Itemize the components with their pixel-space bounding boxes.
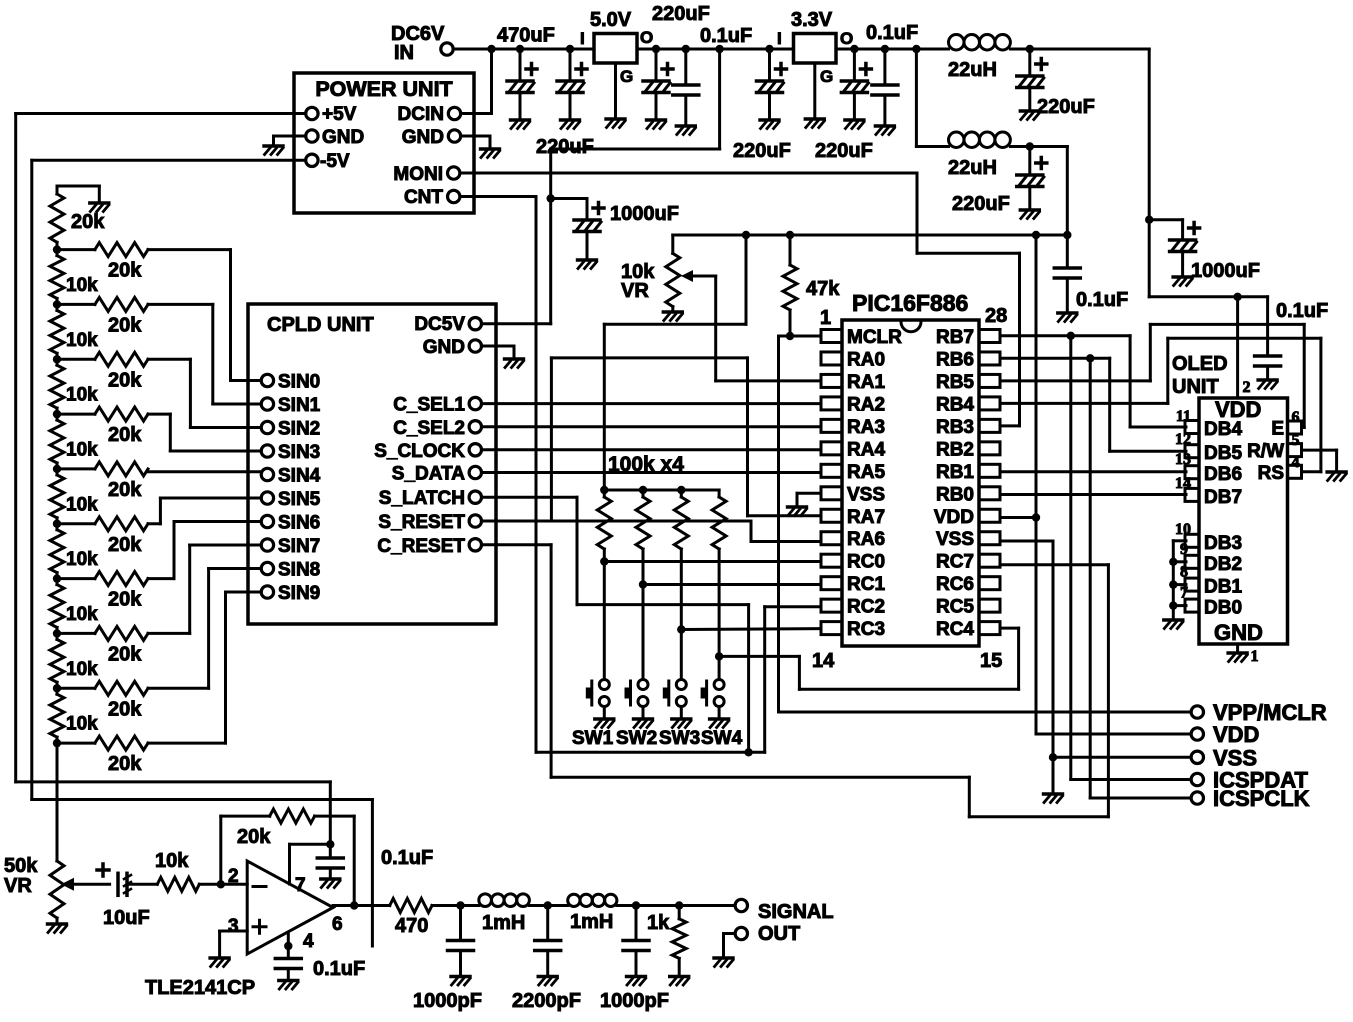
- label 20k (SIN2): [108, 369, 142, 391]
- wire 10uF to 10k: [127, 883, 157, 886]
- junction pin7 node: [326, 840, 334, 848]
- wire SIN8 route: [148, 569, 261, 689]
- wire tap4 to resistor: [57, 467, 95, 470]
- svg-text:10k: 10k: [66, 330, 98, 351]
- terminal SIN9: [261, 586, 273, 598]
- capacitor 0.1uF (pin7): [317, 858, 343, 868]
- wire ladder seg1b: [56, 298, 59, 304]
- ground (SIGNAL OUT): [714, 958, 733, 967]
- resistor 20k (SIN5): [95, 517, 148, 531]
- wire pin7: [290, 844, 331, 884]
- svg-text:C_SEL2: C_SEL2: [393, 418, 465, 439]
- terminal S_RESET: [469, 515, 481, 527]
- pin label VDD (OLED): [1215, 397, 1261, 422]
- wire node2 cap gnd: [546, 951, 549, 976]
- terminal DC6V IN: [441, 43, 453, 55]
- resistor 20k (ladder top): [50, 194, 64, 242]
- terminal SIGNAL OUT gnd: [735, 927, 747, 939]
- wire SW1 column: [603, 549, 606, 680]
- pin SIN2: [278, 419, 320, 440]
- junction inverting input: [217, 880, 225, 888]
- wire GND right to ground: [461, 136, 490, 148]
- potentiometer 50k VR: [50, 861, 64, 918]
- wire 100k 2 top lead: [642, 490, 645, 497]
- terminal -5V: [306, 154, 318, 166]
- wire 22uH lower out: [1010, 147, 1067, 236]
- label ICSP VSS: [1213, 745, 1257, 770]
- ground (220uF 3.3V output): [845, 120, 864, 129]
- wire 0.1uF PIC bypass lead: [1066, 235, 1069, 268]
- pin C_SEL1: [393, 395, 465, 416]
- svg-text:I: I: [777, 29, 782, 48]
- pin number 4 opamp: [303, 931, 314, 952]
- wire SIN9 route: [148, 592, 261, 743]
- resistor 10k (ladder 9): [50, 694, 64, 737]
- capacitor 1000pF (2): [623, 941, 649, 951]
- pin O (3.3V reg): [840, 29, 853, 48]
- ground (ladder top): [90, 203, 109, 212]
- ground (under switch SW2): [634, 719, 653, 728]
- wire tap7 to resistor: [57, 632, 95, 635]
- svg-text:UNIT: UNIT: [1172, 376, 1219, 398]
- svg-text:DB2: DB2: [1204, 554, 1242, 575]
- pin label RB5 (right): [936, 372, 974, 393]
- svg-text:GND: GND: [322, 127, 364, 148]
- resistor 20k (SIN9): [95, 736, 148, 750]
- svg-text:15: 15: [980, 650, 1002, 672]
- pin label RA3 (left 5): [847, 417, 885, 438]
- junction RC4 node: [715, 652, 723, 660]
- wire 47k bottom lead: [789, 310, 792, 336]
- pin label DB3 (OLED): [1204, 533, 1242, 554]
- svg-text:SIN5: SIN5: [278, 489, 321, 510]
- label 0.1uF (3.3V): [866, 22, 918, 44]
- title CPLD UNIT: [267, 314, 374, 336]
- wire CPLD GND: [482, 346, 515, 358]
- label 220uF (top): [652, 3, 710, 25]
- svg-text:SIN0: SIN0: [278, 372, 320, 393]
- wire 220uF to ground: [569, 93, 572, 120]
- svg-text:DB5: DB5: [1204, 443, 1242, 464]
- junction output node: [350, 901, 358, 909]
- pin label VSS (left 8): [847, 484, 885, 505]
- wire ICSPCLK: [1090, 358, 1191, 798]
- svg-text:10k: 10k: [66, 494, 98, 515]
- label 220uF (3.3V output): [815, 140, 873, 162]
- wire RC0: [604, 560, 820, 563]
- svg-text:220uF: 220uF: [536, 136, 594, 158]
- resistor 47k: [783, 265, 797, 310]
- junction 100k bus 2: [639, 486, 647, 494]
- pin number 4: [1292, 454, 1300, 471]
- wire 3.3V distribution: [673, 234, 1068, 237]
- pin DC5V: [414, 314, 465, 335]
- svg-text:RC7: RC7: [936, 552, 974, 573]
- svg-text:0.1uF: 0.1uF: [1076, 289, 1128, 311]
- svg-text:O: O: [640, 28, 653, 47]
- svg-text:DB6: DB6: [1204, 464, 1242, 485]
- svg-text:2200pF: 2200pF: [512, 990, 581, 1012]
- resistor 20k (SIN6): [95, 572, 148, 586]
- wire tap1 to resistor: [57, 303, 95, 306]
- wire feedback left: [221, 816, 270, 884]
- pin G (3.3V reg): [820, 67, 833, 86]
- pin label DB5 (OLED): [1204, 443, 1242, 464]
- ground (5.0V reg): [606, 119, 625, 128]
- ground (OLED GND): [1228, 653, 1247, 662]
- wire 220uF LC upper gnd: [1028, 88, 1031, 111]
- label 10k (9): [66, 714, 98, 735]
- svg-text:8: 8: [1180, 564, 1188, 581]
- wire OLED GND pin: [1236, 644, 1239, 652]
- wire ladder seg9a: [56, 688, 59, 694]
- svg-text:RC0: RC0: [847, 552, 885, 573]
- wire 220uF out to ground: [655, 93, 658, 120]
- pin GND left: [322, 127, 364, 148]
- wire ICSPDAT: [1071, 336, 1192, 780]
- junction ladder tap 6: [53, 574, 61, 582]
- ground (pin7 cap): [321, 879, 340, 888]
- svg-text:SIN3: SIN3: [278, 442, 320, 463]
- junction PIC VDD: [1032, 513, 1040, 521]
- pin GND right: [402, 127, 444, 148]
- wire 5.0V reg ground pin: [614, 63, 617, 118]
- junction RC3 node: [677, 625, 685, 633]
- svg-text:DB3: DB3: [1204, 533, 1242, 554]
- junction ladder tap 9: [53, 739, 61, 747]
- label 1000uF right: [1191, 260, 1260, 282]
- resistor 100k (2): [636, 497, 650, 549]
- wire ladder seg0: [56, 242, 59, 249]
- resistor 10k (ladder 1): [50, 256, 64, 299]
- wire ladder top lead: [56, 186, 59, 194]
- wire ladder seg2a: [56, 304, 59, 310]
- wire tap2 to resistor: [57, 358, 95, 361]
- capacitor 220uF (3.3V output): [841, 64, 871, 93]
- terminal SIN0: [261, 374, 273, 386]
- ground (0.1uF PIC bypass): [1058, 313, 1077, 322]
- pin SIN0: [278, 372, 320, 393]
- label 0.1uF pin7: [381, 847, 433, 869]
- svg-text:22uH: 22uH: [948, 59, 997, 81]
- pin SIN4: [278, 466, 321, 487]
- pin number 7 opamp: [295, 875, 306, 896]
- label ICSP ICSPDAT: [1213, 768, 1308, 793]
- pin C_SEL2: [393, 418, 465, 439]
- label 0.1uF pin4: [313, 958, 365, 980]
- pin label RC2 (left 13): [847, 597, 885, 618]
- svg-text:1000uF: 1000uF: [1191, 260, 1260, 282]
- pin label DB1 (OLED): [1204, 577, 1242, 598]
- pin number 9: [1180, 541, 1188, 558]
- wire ladder top to ground: [57, 186, 99, 202]
- svg-text:VDD: VDD: [934, 507, 974, 528]
- label 10k input: [155, 850, 189, 872]
- label 10k (VR): [621, 261, 655, 283]
- svg-text:9: 9: [1180, 541, 1188, 558]
- resistor 10k (input): [157, 877, 199, 891]
- svg-text:PIC16F886: PIC16F886: [852, 290, 968, 316]
- svg-text:7: 7: [1180, 585, 1188, 602]
- wire 1000uF left lead: [551, 199, 587, 221]
- terminal SIN1: [261, 398, 273, 410]
- capacitor 1000uF (right): [1170, 223, 1200, 252]
- svg-text:470uF: 470uF: [497, 25, 555, 47]
- svg-text:RB3: RB3: [936, 417, 974, 438]
- label VR: [621, 280, 649, 302]
- plus sign (pin3): [253, 920, 266, 933]
- ground (pin3): [210, 958, 229, 967]
- label SW1: [572, 728, 614, 749]
- svg-text:GND: GND: [1214, 620, 1263, 645]
- wire S_DATA to RA5: [482, 471, 821, 474]
- resistor 20k (SIN8): [95, 681, 148, 695]
- terminal SIN4: [261, 468, 273, 480]
- svg-text:VDD: VDD: [1213, 722, 1259, 747]
- resistor 10k (ladder 2): [50, 310, 64, 353]
- junction 220uF 3.3V input: [765, 45, 773, 53]
- svg-text:10uF: 10uF: [103, 907, 150, 929]
- junction 1000uF left: [547, 194, 555, 202]
- svg-text:DB4: DB4: [1204, 419, 1242, 440]
- pin label DB2 (OLED): [1204, 554, 1242, 575]
- pin label VDD (right): [934, 507, 974, 528]
- terminal ICSP ICSPCLK: [1191, 792, 1203, 804]
- wire to 22uH upper: [916, 48, 948, 51]
- capacitor 0.1uF (PIC bypass): [1054, 268, 1080, 278]
- IC PIC16F886 body: [842, 320, 979, 646]
- wire 5V rail: [637, 48, 794, 51]
- junction ladder tap 1: [53, 300, 61, 308]
- label 20k (SIN7): [108, 643, 142, 665]
- junction ladder tap 0: [53, 245, 61, 253]
- resistor 10k (ladder 3): [50, 365, 64, 408]
- svg-text:2: 2: [1243, 379, 1251, 396]
- wire 1000uF left gnd: [586, 232, 589, 260]
- label 220uF (3.3V input): [733, 140, 791, 162]
- pin number 15: [980, 650, 1002, 672]
- ground (0.1uF OLED): [1258, 380, 1277, 389]
- junction 1000uF right: [1145, 216, 1153, 224]
- terminal C_RESET: [469, 539, 481, 551]
- resistor 100k (1): [597, 497, 611, 549]
- wire out gnd terminal: [724, 934, 736, 958]
- wire ladder seg2b: [56, 353, 59, 359]
- wire ladder seg5b: [56, 518, 59, 524]
- wire 220uF 3.3Vin gnd: [768, 93, 771, 120]
- resistor 10k (ladder 5): [50, 475, 64, 518]
- junction ladder tap 3: [53, 410, 61, 418]
- svg-text:20k: 20k: [108, 479, 142, 501]
- wire SIN2 route: [148, 359, 261, 427]
- ground (1000uF right): [1173, 277, 1192, 286]
- wire RB0 to DB7: [1001, 493, 1186, 496]
- ground (10k VR): [663, 312, 682, 321]
- svg-text:SIN7: SIN7: [278, 536, 320, 557]
- label VR (50k): [4, 875, 32, 897]
- label 1000pF 1: [413, 990, 482, 1012]
- svg-text:13: 13: [1175, 451, 1191, 468]
- junction 100k bus 3: [677, 486, 685, 494]
- POWER UNIT box: [294, 73, 474, 213]
- svg-text:220uF: 220uF: [733, 140, 791, 162]
- svg-text:VSS: VSS: [847, 484, 885, 505]
- pin label RC7 (right): [936, 552, 974, 573]
- svg-text:MONI: MONI: [393, 164, 443, 185]
- label 10k (2): [66, 330, 98, 351]
- terminal ICSP ICSPDAT: [1191, 773, 1203, 785]
- svg-text:1k: 1k: [647, 912, 670, 934]
- wire 100k bus feed: [604, 235, 746, 490]
- wire DB3 tie: [1173, 541, 1186, 619]
- svg-text:RB0: RB0: [936, 484, 974, 505]
- wire 100k bus: [604, 489, 719, 492]
- svg-text:SW2: SW2: [616, 728, 657, 749]
- ground (under switch SW3): [672, 719, 691, 728]
- wire MCLR to VPP/MCLR: [779, 336, 1192, 712]
- svg-text:RA5: RA5: [847, 462, 885, 483]
- label DC6V: [391, 23, 445, 45]
- title OLED (line1): [1172, 353, 1228, 375]
- pin number 14: [812, 650, 835, 672]
- wire node1 cap lead: [459, 906, 462, 941]
- capacitor 2200pF: [535, 941, 561, 951]
- pin number 5: [1292, 432, 1300, 449]
- svg-text:S_LATCH: S_LATCH: [379, 488, 465, 509]
- svg-text:2: 2: [228, 866, 239, 887]
- junction 0.1uF PIC bypass: [1063, 231, 1071, 239]
- wire DC6V rail to 5.0V regulator: [453, 48, 594, 51]
- label 10k (4): [66, 440, 98, 461]
- wire 3.3V reg ground pin: [813, 63, 816, 118]
- ground (2200pF): [538, 977, 557, 986]
- pin -5V: [320, 151, 350, 172]
- svg-text:22uH: 22uH: [948, 157, 997, 179]
- ground (470uF): [511, 120, 530, 129]
- inductor 22uH upper: [949, 35, 1011, 50]
- svg-text:DB1: DB1: [1204, 577, 1242, 598]
- ground (220uF LC lower): [1020, 210, 1039, 219]
- pin S_RESET: [378, 512, 465, 533]
- wire pin4 cap lead: [287, 946, 290, 959]
- capacitor 220uF (LC upper): [1017, 59, 1047, 88]
- pin number 12: [1175, 431, 1191, 448]
- svg-text:RA4: RA4: [847, 439, 885, 460]
- svg-text:SW3: SW3: [659, 728, 700, 749]
- svg-text:O: O: [840, 29, 853, 48]
- label 100k x4: [608, 453, 684, 476]
- junction S_LATCH/CNT: [744, 748, 752, 756]
- switch SW3: [663, 680, 687, 717]
- pin +5V: [322, 104, 357, 125]
- svg-text:100k x4: 100k x4: [608, 453, 684, 476]
- wire DC5V vertical: [482, 149, 720, 324]
- label 20k (SIN4): [108, 479, 142, 501]
- wire ladder seg5a: [56, 469, 59, 475]
- svg-text:E: E: [1271, 419, 1284, 440]
- terminal S_LATCH: [469, 491, 481, 503]
- svg-text:POWER UNIT: POWER UNIT: [315, 77, 452, 101]
- junction 0.1uF 5V cap: [682, 45, 690, 53]
- wire ladder seg6a: [56, 524, 59, 530]
- svg-text:I: I: [580, 29, 585, 48]
- ground (220uF 3.3V input): [760, 120, 779, 129]
- wire PIC VSS right: [1001, 541, 1053, 757]
- pin G (5.0V reg): [620, 67, 633, 86]
- capacitor 220uF (5V input): [557, 64, 587, 93]
- wire 47k top lead: [789, 235, 792, 265]
- terminal GND left: [306, 130, 318, 142]
- svg-text:RA7: RA7: [847, 507, 885, 528]
- pin label E (OLED): [1271, 419, 1284, 440]
- pin number 6 opamp: [332, 914, 343, 935]
- wire pin7 cap gnd: [329, 868, 332, 878]
- wire tap6 to resistor: [57, 577, 95, 580]
- wire +5V rail: [16, 114, 331, 845]
- junction MCLR node: [786, 332, 794, 340]
- wire SW2 column: [642, 549, 645, 680]
- pin number 13: [1175, 451, 1191, 468]
- label 20k (SIN6): [108, 589, 142, 611]
- ground (R/W): [1327, 472, 1346, 481]
- terminal MONI: [448, 167, 460, 179]
- svg-text:12: 12: [1175, 431, 1191, 448]
- svg-text:11: 11: [1176, 408, 1191, 425]
- svg-text:10k: 10k: [66, 440, 98, 461]
- capacitor 10uF: [97, 864, 131, 895]
- capacitor 470uF: [507, 64, 537, 93]
- junction ladder tap 2: [53, 355, 61, 363]
- wire tap3 to resistor: [57, 413, 95, 416]
- label 10uF: [103, 907, 150, 929]
- svg-text:MCLR: MCLR: [847, 327, 902, 348]
- svg-text:10k: 10k: [155, 850, 189, 872]
- svg-text:14: 14: [812, 650, 835, 672]
- terminal CPLD GND: [469, 340, 481, 352]
- terminal C_SEL1: [469, 397, 481, 409]
- wire MONI to RB3: [461, 173, 1020, 426]
- svg-text:3: 3: [228, 916, 239, 937]
- svg-text:20k: 20k: [71, 211, 105, 233]
- wiper arrow 10k VR: [681, 270, 716, 282]
- label SW4: [701, 728, 743, 749]
- svg-text:1: 1: [1251, 648, 1259, 665]
- capacitor 1000pF (1): [448, 941, 474, 951]
- svg-text:0.1uF: 0.1uF: [866, 22, 918, 44]
- pin number 3 opamp: [228, 916, 239, 937]
- wire +5V to ICSP VDD: [1036, 235, 1191, 734]
- wire ladder seg7b: [56, 627, 59, 633]
- label 10k (7): [66, 604, 98, 625]
- capacitor 0.1uF (5V): [673, 85, 699, 95]
- junction 0.1uF 3.3V cap: [881, 45, 889, 53]
- svg-text:1000pF: 1000pF: [600, 990, 669, 1012]
- svg-text:SIGNAL: SIGNAL: [758, 901, 834, 923]
- pin label RC5 (right): [936, 597, 974, 618]
- label 22uH upper: [948, 59, 997, 81]
- wire SW4 column: [718, 549, 721, 680]
- ground (3.3V reg): [805, 119, 824, 128]
- wire DB1 stub: [1173, 583, 1186, 586]
- capacitor 220uF (5V output): [643, 64, 673, 93]
- pin label RB0 (right): [936, 484, 974, 505]
- resistor 20k (SIN2): [95, 352, 148, 366]
- pin number 10: [1175, 521, 1191, 538]
- wire S_CLOCK to RA4: [482, 448, 821, 451]
- resistor 1k: [672, 919, 686, 959]
- label IN: [394, 42, 414, 64]
- pin number 28: [985, 305, 1007, 327]
